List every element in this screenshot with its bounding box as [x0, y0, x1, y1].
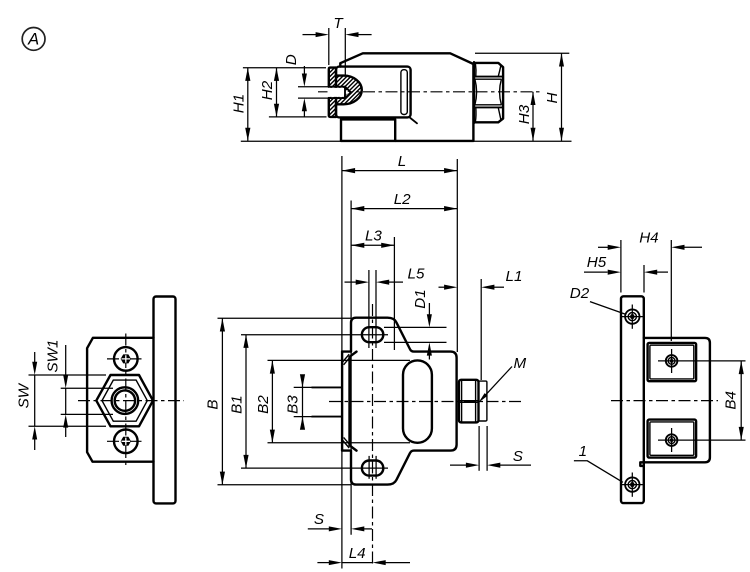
left view thin mounting plate — [154, 297, 176, 504]
dimension SW — [34, 352, 36, 362]
right view centerline — [611, 400, 718, 402]
nose tab front view — [312, 387, 342, 416]
svg-text:H3: H3 — [516, 104, 533, 124]
dimension L1 — [439, 286, 445, 288]
baseline extension — [241, 140, 341, 142]
top view body outline — [340, 53, 473, 141]
top ear slot hole — [362, 327, 383, 342]
dimension SW extension lines — [29, 374, 107, 376]
dimension B3 extension lines — [294, 386, 312, 388]
svg-text:L1: L1 — [506, 268, 523, 285]
dimension D1 — [428, 303, 430, 315]
svg-text:H1: H1 — [231, 94, 248, 113]
front view ear and body outline — [342, 318, 457, 485]
dimension H5 extension line — [643, 265, 645, 293]
thread leader M — [481, 367, 512, 400]
chamfer tick marks bottom — [343, 437, 351, 448]
dimension T extension lines — [328, 28, 330, 65]
pad screw bottom — [658, 439, 746, 441]
dimension H2 — [276, 68, 278, 117]
dimension L3 extension — [393, 237, 395, 350]
svg-text:M: M — [513, 355, 526, 372]
svg-text:1: 1 — [579, 443, 587, 460]
hole projection lines bottom — [368, 456, 370, 479]
dimension S right extensions — [478, 426, 480, 471]
top view latch housing — [336, 67, 411, 118]
plate screw top — [622, 316, 644, 318]
dimension T — [303, 34, 317, 36]
top view spring wire — [410, 118, 417, 123]
dimension D — [303, 66, 305, 74]
dimension L2 — [351, 208, 457, 210]
dimension H5 — [584, 271, 608, 273]
dimension B2 extension lines — [268, 359, 411, 361]
top view hex nut side — [473, 62, 475, 123]
long extension line left (front face) — [341, 156, 343, 569]
right view body — [640, 338, 710, 466]
dimension B1 extension lines — [241, 334, 388, 336]
dimension L3 — [351, 244, 394, 246]
dimension H1 — [247, 68, 249, 141]
svg-text:D1: D1 — [412, 289, 429, 308]
stud nut front view — [459, 380, 479, 423]
left view centerlines — [125, 334, 127, 468]
extension line right (body edge) — [456, 159, 458, 352]
svg-text:L3: L3 — [365, 228, 382, 245]
svg-text:L5: L5 — [408, 266, 425, 283]
svg-text:B3: B3 — [285, 395, 302, 414]
svg-text:D: D — [283, 54, 300, 65]
dimension B4 — [740, 361, 742, 440]
dimension L5 — [345, 281, 357, 283]
svg-text:H4: H4 — [639, 230, 658, 247]
chamfer tick marks top — [343, 354, 351, 365]
view label A (circled) — [22, 28, 45, 51]
central slot (stadium) — [403, 360, 432, 442]
svg-text:B1: B1 — [229, 395, 246, 414]
left view bore circles — [112, 387, 139, 414]
dimension D1 extension lines — [384, 326, 447, 328]
dimension S right — [450, 464, 466, 466]
left view screw bottom — [114, 430, 138, 454]
svg-text:L2: L2 — [394, 191, 411, 208]
plate screw bottom — [622, 484, 644, 486]
svg-text:S: S — [314, 511, 324, 528]
dimension L5 extension lines — [368, 270, 370, 348]
dimension B2 — [271, 360, 273, 442]
svg-text:S: S — [513, 448, 523, 465]
front view vertical centerline — [372, 304, 374, 566]
dimension B — [221, 318, 223, 485]
dimension L1 extension — [480, 279, 482, 380]
top view bottom edge — [341, 140, 473, 142]
top view centerline — [318, 91, 541, 93]
dimension H4 extension lines — [620, 240, 622, 293]
dimension H — [561, 53, 563, 141]
dimension L4 — [317, 562, 329, 564]
svg-text:A: A — [27, 31, 39, 49]
dimension H3 — [532, 92, 534, 141]
right view pad top — [648, 343, 697, 381]
svg-text:H5: H5 — [587, 254, 607, 271]
svg-text:B4: B4 — [723, 391, 740, 410]
left view main body plate — [87, 338, 153, 462]
dimension B3 — [302, 375, 304, 430]
long extension line (ear face) — [350, 201, 352, 535]
nose bore edge lines — [329, 87, 345, 98]
dimension B1 — [245, 335, 247, 468]
top edge extension right — [475, 52, 569, 54]
dimension SW1 extension lines — [61, 387, 113, 389]
right view pad bottom — [648, 420, 697, 458]
stud sleeve end — [479, 381, 487, 421]
dimension L — [342, 170, 457, 172]
top view housing inner slot — [401, 70, 407, 115]
dimension SW1 — [65, 345, 67, 376]
bore cone tip — [345, 87, 351, 98]
svg-text:B2: B2 — [255, 395, 272, 414]
dimension B extension lines — [218, 317, 352, 319]
right view mounting plate — [621, 296, 644, 503]
dimension D extension lines — [298, 86, 329, 88]
pad screw top — [658, 360, 746, 362]
svg-text:B: B — [205, 400, 222, 410]
top view mounting flange — [341, 119, 395, 140]
left view hex nut — [96, 375, 153, 426]
front view horizontal centerline — [329, 401, 521, 403]
svg-text:L: L — [398, 153, 406, 170]
front plate edge — [341, 352, 343, 451]
dimension H4 — [598, 246, 608, 248]
svg-text:H2: H2 — [259, 80, 276, 100]
left view screw top — [114, 347, 138, 371]
nose front plate — [329, 68, 336, 117]
nose D-profile outline — [336, 76, 362, 105]
svg-text:D2: D2 — [570, 285, 590, 302]
svg-text:L4: L4 — [349, 545, 366, 562]
bottom ear slot hole — [362, 461, 383, 476]
body left edge chamfers — [350, 352, 357, 451]
svg-text:SW: SW — [16, 382, 33, 408]
svg-text:SW1: SW1 — [45, 340, 62, 373]
dimension S bottom — [308, 528, 329, 530]
nose hole bore (white) — [328, 88, 350, 97]
svg-text:H: H — [544, 92, 561, 103]
dimension H2 extension lines — [243, 67, 326, 69]
